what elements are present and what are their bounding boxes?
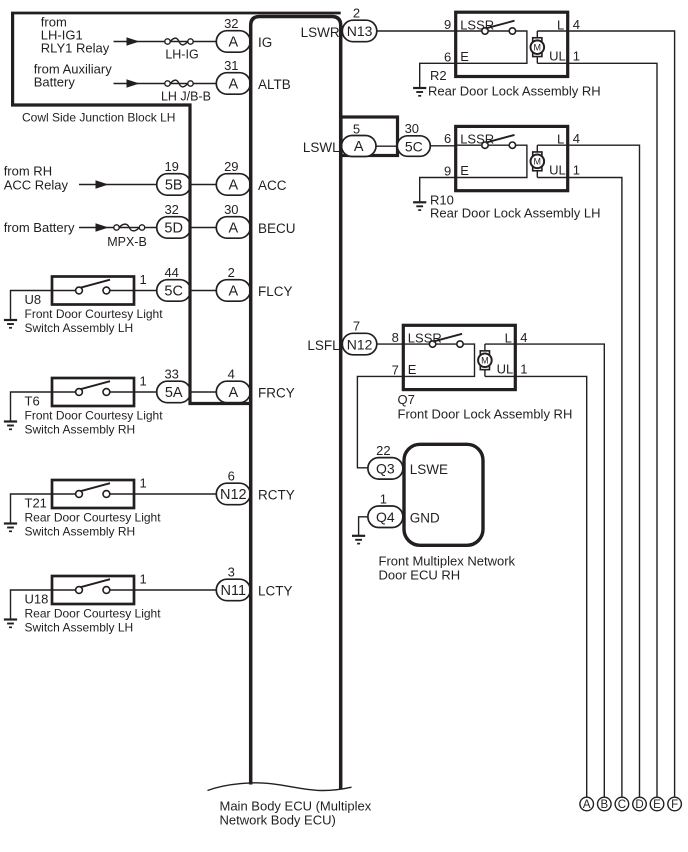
- Cowl Side Junction Block LH outline: [13, 13, 251, 404]
- ECU top continuation line: [11, 12, 341, 15]
- wire 5C to lock box LH: [430, 145, 455, 147]
- svg-text:1: 1: [520, 361, 527, 376]
- wire U18 switch output: [134, 589, 217, 591]
- wire IG feed: [114, 41, 217, 43]
- connector Q4 pin 1 (GND): [368, 506, 403, 528]
- wire ALTB feed: [114, 83, 217, 85]
- switch LSSR contacts (lock assembly LH): [482, 142, 488, 148]
- svg-text:6: 6: [444, 49, 451, 64]
- svg-text:Switch Assembly LH: Switch Assembly LH: [25, 621, 134, 635]
- switch U18 contacts: [52, 589, 79, 591]
- connector 5A pin 33: [157, 381, 191, 403]
- wire L pin4 Q7 to column B: [515, 344, 604, 797]
- svg-text:Front Multiplex Network: Front Multiplex Network: [379, 554, 516, 569]
- svg-text:Switch Assembly RH: Switch Assembly RH: [25, 525, 136, 539]
- switch T6 contacts: [52, 391, 79, 393]
- connector A pin 2 (FLCY): [216, 280, 250, 302]
- switch U8 contacts: [52, 290, 79, 292]
- svg-text:A: A: [228, 385, 238, 401]
- svg-text:Rear Door Courtesy Light: Rear Door Courtesy Light: [25, 607, 162, 621]
- svg-text:A: A: [354, 139, 364, 155]
- svg-text:from Battery: from Battery: [4, 220, 75, 235]
- svg-text:Main Body ECU (Multiplex: Main Body ECU (Multiplex: [220, 799, 372, 814]
- svg-text:Front Door Courtesy Light: Front Door Courtesy Light: [25, 307, 164, 321]
- svg-text:T6: T6: [25, 394, 40, 409]
- svg-text:9: 9: [444, 17, 451, 32]
- Main Body ECU block outline: [251, 17, 341, 790]
- svg-text:5B: 5B: [165, 178, 183, 194]
- connector N12 pin 6 (RCTY): [216, 483, 250, 505]
- svg-text:5D: 5D: [164, 221, 183, 237]
- ground T6: [4, 420, 17, 422]
- fuse LH J/B-B: [170, 80, 188, 87]
- svg-text:A: A: [228, 35, 238, 51]
- svg-text:E: E: [408, 362, 417, 377]
- svg-text:from RH: from RH: [4, 164, 52, 179]
- svg-text:8: 8: [392, 330, 399, 345]
- svg-text:5A: 5A: [165, 385, 183, 401]
- svg-text:ALTB: ALTB: [258, 77, 291, 92]
- connector 5C pin 30: [397, 136, 430, 157]
- svg-text:5: 5: [353, 122, 360, 137]
- svg-text:9: 9: [444, 164, 451, 179]
- svg-text:1: 1: [140, 374, 147, 389]
- svg-text:ACC: ACC: [258, 178, 287, 193]
- svg-text:Battery: Battery: [34, 75, 76, 90]
- svg-text:E: E: [460, 163, 469, 178]
- wire L pin4 LH to column D: [568, 145, 640, 797]
- wire T6 switch output: [134, 391, 217, 393]
- connector A pin 4 (FRCY): [216, 381, 250, 403]
- svg-text:RLY1 Relay: RLY1 Relay: [41, 41, 110, 56]
- switch U18 box: [52, 576, 134, 604]
- switch LSSR contacts (lock assembly RH): [482, 28, 488, 34]
- svg-text:19: 19: [164, 159, 178, 174]
- svg-text:LSWR: LSWR: [301, 25, 340, 40]
- node D circle: [633, 797, 647, 811]
- lock assembly LH box: [456, 126, 568, 190]
- svg-text:N12: N12: [220, 487, 247, 503]
- connector A pin 5 housing box: [341, 117, 398, 156]
- svg-text:U8: U8: [25, 292, 42, 307]
- svg-text:ACC Relay: ACC Relay: [4, 178, 69, 193]
- svg-text:LSFL: LSFL: [307, 338, 340, 353]
- connector N12 pin 7 (LSFL): [342, 333, 377, 355]
- svg-text:A: A: [228, 221, 238, 237]
- svg-text:1: 1: [573, 163, 580, 178]
- ECU bottom torn wavy edge: [208, 783, 352, 791]
- svg-text:U18: U18: [25, 592, 49, 607]
- svg-text:6: 6: [228, 469, 235, 484]
- ground R10: [413, 201, 426, 203]
- svg-text:1: 1: [140, 476, 147, 491]
- arrow into LH J/B-B fuse: [127, 79, 140, 87]
- ground U8: [4, 319, 17, 321]
- svg-text:5C: 5C: [405, 138, 423, 154]
- svg-text:Q7: Q7: [398, 392, 415, 407]
- connector N13 pin 2 (LSWR): [342, 20, 377, 42]
- arrow into LH-IG fuse: [127, 37, 140, 45]
- svg-text:E: E: [460, 49, 469, 64]
- connector 5C pin 44: [157, 280, 191, 302]
- node C circle: [615, 797, 629, 811]
- svg-text:C: C: [618, 799, 626, 811]
- wire BECU feed: [79, 227, 217, 229]
- wire U18 switch to ground: [11, 590, 53, 620]
- ground T21: [4, 522, 17, 524]
- wire E pin6 RH to ground: [420, 63, 456, 88]
- svg-text:1: 1: [380, 492, 387, 507]
- motor M (lock assembly LH): [536, 145, 538, 177]
- svg-text:UL: UL: [549, 48, 566, 63]
- node F circle: [668, 797, 682, 811]
- node B circle: [598, 797, 612, 811]
- svg-text:E: E: [653, 799, 661, 811]
- front lock assembly Q7 box: [403, 325, 515, 389]
- svg-text:7: 7: [392, 362, 399, 377]
- svg-text:A: A: [228, 77, 238, 93]
- ground (Q4): [352, 535, 365, 537]
- front lock assembly Q7 internal switch wiring: [403, 344, 474, 376]
- svg-text:LCTY: LCTY: [258, 584, 293, 599]
- connector Q3 pin 22 (LSWE): [368, 458, 403, 480]
- wire T21 switch to ground: [11, 494, 53, 524]
- arrow BECU: [96, 223, 109, 231]
- svg-text:44: 44: [164, 265, 178, 280]
- svg-text:LSWE: LSWE: [410, 462, 448, 477]
- fuse MPX-B: [119, 224, 139, 231]
- svg-text:LH J/B-B: LH J/B-B: [161, 90, 211, 104]
- svg-text:5C: 5C: [164, 284, 183, 300]
- wire UL pin1 Q7 to column A: [515, 376, 586, 797]
- switch LSSR contacts (front lock assembly Q7): [429, 341, 435, 347]
- node E circle: [650, 797, 664, 811]
- svg-text:29: 29: [224, 159, 238, 174]
- svg-text:2: 2: [353, 6, 360, 21]
- node A circle: [580, 797, 594, 811]
- wire E pin7 Q7 down to Q3: [357, 376, 403, 467]
- svg-text:Door ECU RH: Door ECU RH: [379, 568, 461, 583]
- fuse LH-IG: [170, 38, 188, 45]
- svg-text:LH-IG: LH-IG: [165, 48, 198, 62]
- svg-text:M: M: [534, 157, 542, 167]
- motor M (lock assembly RH): [536, 31, 538, 63]
- svg-text:LSSR: LSSR: [408, 331, 442, 346]
- svg-text:FLCY: FLCY: [258, 284, 293, 299]
- connector A pin 30 (BECU): [216, 217, 250, 239]
- wire Q4 to ground: [359, 517, 369, 536]
- svg-text:LSSR: LSSR: [460, 18, 494, 33]
- wire U8 switch to ground: [11, 291, 53, 321]
- svg-text:GND: GND: [410, 511, 440, 526]
- svg-text:BECU: BECU: [258, 221, 296, 236]
- svg-text:31: 31: [224, 58, 238, 73]
- svg-text:3: 3: [228, 565, 235, 580]
- Front Multiplex Network Door ECU RH box: [404, 444, 483, 545]
- svg-text:A: A: [228, 284, 238, 300]
- svg-text:IG: IG: [258, 35, 272, 50]
- svg-text:2: 2: [228, 265, 235, 280]
- svg-text:M: M: [481, 355, 489, 365]
- switch T21 contacts: [52, 493, 79, 495]
- svg-text:22: 22: [376, 443, 390, 458]
- connector A pin 31 (ALTB): [216, 73, 250, 95]
- svg-text:Switch Assembly LH: Switch Assembly LH: [25, 321, 134, 335]
- svg-text:A: A: [583, 799, 591, 811]
- svg-text:Front Door Lock Assembly RH: Front Door Lock Assembly RH: [398, 407, 573, 422]
- wire T21 switch output: [134, 493, 217, 495]
- svg-text:Cowl Side Junction Block LH: Cowl Side Junction Block LH: [22, 111, 175, 125]
- wire LSWR N13 to lock box: [377, 30, 456, 32]
- lock assembly RH box: [456, 12, 568, 76]
- svg-text:4: 4: [228, 367, 235, 382]
- connector A pin 5 (LSWL): [342, 136, 377, 157]
- svg-text:UL: UL: [497, 361, 514, 376]
- svg-text:1: 1: [573, 48, 580, 63]
- switch T21 box: [52, 480, 134, 508]
- svg-text:A: A: [228, 178, 238, 194]
- svg-text:Front Door Courtesy Light: Front Door Courtesy Light: [25, 409, 164, 423]
- connector A pin 29 (ACC): [216, 174, 250, 196]
- svg-text:Rear Door Lock Assembly RH: Rear Door Lock Assembly RH: [428, 84, 601, 99]
- svg-text:Rear Door Courtesy Light: Rear Door Courtesy Light: [25, 511, 162, 525]
- svg-text:4: 4: [573, 131, 580, 146]
- svg-text:R2: R2: [430, 68, 447, 83]
- svg-text:F: F: [671, 799, 678, 811]
- wire ACC feed: [79, 184, 217, 186]
- svg-text:32: 32: [164, 202, 178, 217]
- svg-text:Q4: Q4: [376, 509, 395, 525]
- connector A pin 32 (IG): [216, 31, 250, 53]
- connector 5B pin 19: [157, 174, 191, 196]
- wire UL pin1 LH to column C: [568, 178, 622, 798]
- ground U18: [4, 618, 17, 620]
- svg-text:7: 7: [353, 319, 360, 334]
- svg-text:Rear Door Lock Assembly LH: Rear Door Lock Assembly LH: [430, 206, 601, 221]
- svg-text:N13: N13: [347, 23, 373, 39]
- svg-text:RCTY: RCTY: [258, 488, 295, 503]
- svg-text:D: D: [635, 799, 643, 811]
- wire T6 switch to ground: [11, 392, 53, 422]
- svg-text:30: 30: [224, 202, 238, 217]
- svg-text:UL: UL: [549, 163, 566, 178]
- arrow ACC: [96, 180, 109, 188]
- svg-text:4: 4: [573, 17, 580, 32]
- lock assembly LH internal switch wiring: [456, 145, 527, 177]
- svg-text:4: 4: [520, 330, 527, 345]
- svg-text:Q3: Q3: [376, 461, 395, 477]
- wire LSFL N12 to Q7: [377, 343, 404, 345]
- wire L pin4 RH to column F: [568, 31, 675, 797]
- svg-text:T21: T21: [25, 496, 47, 511]
- svg-text:LSSR: LSSR: [460, 132, 494, 147]
- lock assembly RH internal switch wiring: [456, 31, 527, 63]
- svg-text:M: M: [534, 42, 542, 52]
- svg-text:L: L: [557, 18, 564, 33]
- connector N11 pin 3 (LCTY): [216, 579, 250, 601]
- wire E pin9 LH to ground: [420, 178, 456, 203]
- connector 5D pin 32: [157, 217, 191, 239]
- svg-text:LSWL: LSWL: [303, 140, 340, 155]
- svg-text:1: 1: [140, 572, 147, 587]
- svg-text:32: 32: [224, 16, 238, 31]
- switch U8 box: [52, 277, 134, 305]
- svg-text:L: L: [557, 132, 564, 147]
- switch T6 box: [52, 378, 134, 406]
- wire LSWL A to 5C: [376, 145, 397, 147]
- svg-text:MPX-B: MPX-B: [107, 235, 147, 249]
- wire U8 switch output: [134, 290, 217, 292]
- svg-text:6: 6: [444, 131, 451, 146]
- svg-text:L: L: [505, 331, 512, 346]
- svg-text:B: B: [600, 799, 608, 811]
- svg-text:Network Body ECU): Network Body ECU): [220, 813, 336, 828]
- svg-text:FRCY: FRCY: [258, 386, 295, 401]
- svg-text:1: 1: [140, 272, 147, 287]
- svg-text:30: 30: [405, 121, 419, 136]
- svg-text:Switch Assembly RH: Switch Assembly RH: [25, 423, 136, 437]
- motor M (front lock assembly Q7): [484, 344, 486, 376]
- svg-text:33: 33: [164, 367, 178, 382]
- wire UL pin1 RH to column E: [568, 63, 657, 797]
- ground R2: [413, 87, 426, 89]
- svg-text:N11: N11: [221, 583, 247, 599]
- svg-text:N12: N12: [347, 336, 373, 352]
